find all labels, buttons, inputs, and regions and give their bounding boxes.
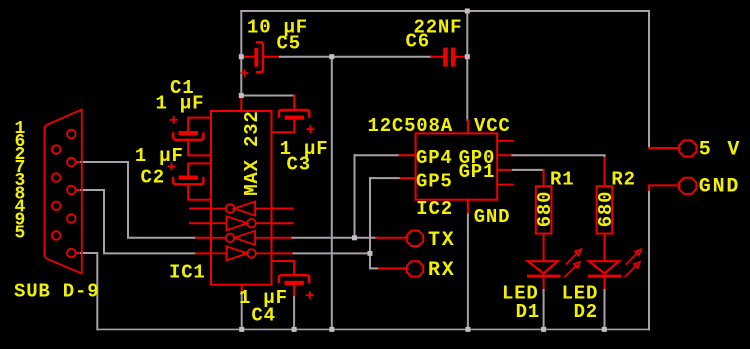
transistor inverter row2 bbox=[211, 216, 272, 230]
node junction RX bbox=[368, 251, 373, 256]
wire C4 bottom lead bbox=[293, 285, 295, 297]
transistor inverter row3 bbox=[211, 231, 272, 245]
wire top rail 5V bbox=[241, 10, 649, 12]
svg-text:SUB D-9: SUB D-9 bbox=[14, 280, 99, 302]
wire RX lead bbox=[379, 267, 408, 269]
svg-text:5: 5 bbox=[699, 138, 713, 161]
wire IC2 GP0 pin stub bbox=[497, 154, 512, 156]
wire junction95 to C3 bbox=[241, 95, 294, 97]
svg-text:C6: C6 bbox=[406, 30, 430, 52]
wire row3 to TX junction bbox=[293, 237, 377, 239]
svg-text:D1: D1 bbox=[516, 301, 540, 323]
svg-text:12C508A: 12C508A bbox=[368, 115, 453, 137]
svg-text:1 µF: 1 µF bbox=[135, 145, 184, 167]
wire IC1 row2 left stub bbox=[190, 222, 211, 224]
capacitor C5 bbox=[242, 42, 263, 76]
wire bottom rail GND bbox=[97, 328, 649, 330]
node junction top rail bbox=[465, 9, 470, 14]
wire GND vertical at 332 bbox=[331, 57, 333, 330]
wire DB9 pin5 to rail bbox=[81, 253, 97, 329]
wire GP0 to R2 bbox=[513, 155, 605, 158]
svg-text:R1: R1 bbox=[550, 169, 574, 191]
wire C3 bottom lead to IC1 bbox=[272, 120, 295, 132]
wire DB9 pin3 lead bbox=[76, 189, 81, 191]
resistor R2 bbox=[597, 186, 613, 233]
wire C6 right lead bbox=[456, 56, 468, 58]
capacitor C6 bbox=[443, 48, 455, 67]
svg-text:C3: C3 bbox=[287, 153, 311, 175]
wire IC2 GND vertical to rail bbox=[467, 215, 469, 330]
op-amp IC1 box MAX232 bbox=[211, 111, 272, 285]
wire IC1 row4 left stub bbox=[196, 252, 211, 254]
wire GP1 to R1 bbox=[513, 169, 544, 171]
wire IC1 row2 right stub bbox=[272, 222, 293, 224]
connector DB9 pin 7 bbox=[52, 173, 61, 182]
svg-text:GND: GND bbox=[474, 206, 511, 228]
svg-text:V: V bbox=[727, 138, 741, 161]
terminal 5V octagon bbox=[679, 140, 696, 156]
wire IC2 pin right 4 stub bbox=[497, 184, 512, 186]
wire IC1 V- to C4 bbox=[272, 261, 295, 275]
svg-text:5: 5 bbox=[15, 224, 26, 244]
wire row4 to RX junction bbox=[294, 252, 371, 254]
connector DB9 pin 5 bbox=[67, 249, 76, 258]
svg-text:GND: GND bbox=[699, 176, 740, 199]
node junction V+ C3 bbox=[239, 93, 244, 98]
svg-text:680: 680 bbox=[534, 191, 556, 228]
svg-text:GP4: GP4 bbox=[416, 147, 453, 169]
connector SUB D-9 outline bbox=[45, 110, 82, 274]
node junction rail 332 bbox=[329, 327, 334, 332]
wire C5 right lead bbox=[263, 56, 280, 58]
wire D1 to rail bbox=[543, 290, 545, 329]
connector DB9 pin 9 bbox=[52, 231, 61, 240]
capacitor C1 bbox=[171, 117, 204, 140]
label DB9 pin numbers bbox=[15, 119, 26, 244]
wire IC2 VCC pin stub bbox=[467, 120, 469, 133]
wire IC1 C2+ stub bbox=[188, 163, 211, 175]
wire C3 top lead bbox=[293, 96, 295, 110]
resistor R1 bbox=[536, 186, 552, 233]
svg-text:1 µF: 1 µF bbox=[156, 93, 205, 115]
wire IC1 C1+ stub bbox=[188, 118, 211, 131]
capacitor C3 bbox=[279, 110, 314, 132]
wire C4 to rail bbox=[293, 297, 295, 329]
wire GND terminal lead bbox=[649, 185, 680, 192]
wire GP4 net vertical bbox=[354, 155, 356, 238]
terminal GND octagon bbox=[679, 178, 696, 194]
LED D1 bbox=[527, 249, 581, 277]
wire right vertical GND to rail bbox=[648, 192, 650, 329]
svg-text:IC2: IC2 bbox=[416, 198, 453, 220]
wire 5V terminal lead bbox=[649, 147, 680, 149]
svg-text:IC1: IC1 bbox=[169, 262, 206, 284]
wire RX horizontal bbox=[370, 267, 379, 269]
transistor inverter row1 bbox=[211, 202, 272, 216]
wire C5 left lead bbox=[241, 56, 254, 58]
wire 5V vertical to VCC bbox=[466, 11, 468, 120]
svg-text:R2: R2 bbox=[611, 169, 635, 191]
node junction C6 right bbox=[465, 54, 470, 59]
transistor inverter row4 bbox=[211, 246, 272, 260]
node junction gnd drop bbox=[329, 54, 334, 59]
wire IC2 GP4 pin stub bbox=[400, 154, 416, 156]
node junction rail D1 bbox=[541, 327, 546, 332]
wire GP4 net horizontal bbox=[355, 154, 400, 156]
svg-text:MAX 232: MAX 232 bbox=[241, 110, 263, 195]
wire DB9 pin2 to IC1 row3 bbox=[81, 162, 196, 238]
wire D2 to rail bbox=[604, 290, 606, 329]
wire IC1 C2- stub bbox=[188, 184, 211, 200]
wire IC1 row3 left stub bbox=[196, 237, 211, 239]
node junction rail D2 bbox=[602, 327, 607, 332]
connector DB9 pin 6 bbox=[52, 145, 61, 154]
wire D1 bottom red bbox=[543, 278, 545, 290]
wire IC1 row1 right stub bbox=[272, 208, 293, 210]
wire TX lead bbox=[376, 237, 407, 239]
wire R2 top lead bbox=[604, 158, 606, 186]
wire IC1 row3 right stub bbox=[272, 237, 293, 239]
wire gnd horizontal C5-C6 bbox=[280, 56, 432, 58]
wire left vertical 5V drop bbox=[240, 11, 242, 97]
wire IC2 GND pin stub bbox=[467, 200, 469, 215]
wire GP5 net horizontal bbox=[370, 177, 401, 179]
node junction TX bbox=[352, 235, 357, 240]
wire IC1 VCC pin stub bbox=[240, 97, 242, 112]
wire DB9 pin2 lead bbox=[76, 161, 81, 163]
svg-text:C2: C2 bbox=[141, 167, 165, 189]
wire IC2 pin right 1 stub bbox=[497, 140, 512, 142]
wire DB9 pin5 lead bbox=[76, 252, 81, 254]
wire R1 bottom lead bbox=[543, 234, 545, 261]
connector DB9 pin 2 bbox=[67, 158, 76, 167]
node junction rail IC2gnd bbox=[465, 327, 470, 332]
wire C6 left lead bbox=[432, 56, 444, 58]
wire IC1 row1 left stub bbox=[190, 208, 211, 210]
svg-text:TX: TX bbox=[428, 229, 456, 252]
connector DB9 pin 3 bbox=[67, 186, 76, 195]
wire IC1 C1- stub bbox=[188, 140, 211, 156]
wire right vertical to 5V terminal bbox=[648, 11, 650, 148]
connector DB9 pin 8 bbox=[52, 202, 61, 211]
wire IC2 GP5 pin stub bbox=[401, 177, 416, 179]
svg-text:C5: C5 bbox=[277, 32, 301, 54]
connector DB9 pin 4 bbox=[67, 214, 76, 223]
wire DB9 pin3 to IC1 row4 bbox=[81, 190, 196, 253]
svg-text:C4: C4 bbox=[251, 305, 275, 327]
connector DB9 pin 1 bbox=[67, 130, 76, 139]
svg-text:GP1: GP1 bbox=[459, 161, 496, 183]
svg-text:GP5: GP5 bbox=[416, 171, 453, 193]
wire IC1 row4 right stub bbox=[272, 252, 294, 254]
node junction rail C4 bbox=[292, 327, 297, 332]
terminal RX octagon bbox=[407, 261, 423, 276]
LED D2 bbox=[588, 249, 641, 277]
wire R1 top lead bbox=[543, 170, 545, 186]
node junction C5 left bbox=[239, 54, 244, 59]
wire D2 bottom red bbox=[604, 278, 606, 290]
wire IC1 GND to rail bbox=[241, 292, 243, 329]
svg-text:VCC: VCC bbox=[474, 115, 511, 137]
svg-text:D2: D2 bbox=[574, 301, 598, 323]
svg-text:680: 680 bbox=[595, 191, 617, 228]
wire IC1 GND pin stub bbox=[241, 285, 243, 292]
svg-text:RX: RX bbox=[428, 259, 456, 282]
wire GP5 net vertical bbox=[369, 178, 371, 268]
wire IC2 GP1 pin stub bbox=[497, 169, 513, 171]
capacitor C2 bbox=[169, 163, 204, 184]
op-amp IC2 box 12C508A bbox=[416, 133, 498, 199]
wire R2 bottom lead bbox=[604, 234, 606, 261]
capacitor C4 bbox=[279, 275, 313, 298]
node junction rail IC1gnd bbox=[239, 327, 244, 332]
terminal TX octagon bbox=[407, 231, 423, 246]
